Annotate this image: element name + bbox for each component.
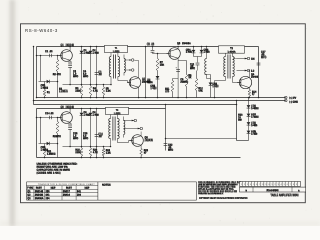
svg-text:47K: 47K <box>57 136 62 139</box>
label C19 <box>83 132 89 140</box>
svg-text:1: 1 <box>241 184 242 186</box>
chart outer box <box>27 182 197 200</box>
label Q6 <box>145 136 154 142</box>
diode D2 <box>89 46 93 86</box>
label Q4 <box>251 73 259 79</box>
label C22 <box>168 144 174 152</box>
svg-text:254: 254 <box>46 197 51 200</box>
diode CR8 <box>247 122 251 131</box>
svg-text:3: 3 <box>278 184 279 186</box>
svg-text:1: 1 <box>272 184 273 186</box>
svg-text:20MFD: 20MFD <box>180 81 188 84</box>
svg-text:47K: 47K <box>57 74 62 77</box>
transformer T3 tertiary <box>124 117 125 138</box>
title block number row <box>240 187 306 192</box>
svg-text:.05: .05 <box>49 51 53 54</box>
wire Q4 emitter <box>248 88 250 90</box>
label R4 <box>93 87 98 93</box>
wire T1 to Q2 base <box>121 81 130 83</box>
svg-text:1-480: 1-480 <box>93 52 100 55</box>
svg-text:1.5K: 1.5K <box>106 152 111 155</box>
svg-text:MFD: MFD <box>73 75 78 78</box>
title block letter B <box>245 190 247 193</box>
label D8 <box>84 111 91 117</box>
label Q5 <box>61 106 75 110</box>
transformer T3 primary <box>109 115 112 148</box>
resistor R7 <box>156 54 159 71</box>
label R5 <box>106 87 111 93</box>
resistor R9 <box>185 61 188 99</box>
capacitor C17 <box>257 63 261 65</box>
resistor R21 <box>40 117 46 159</box>
svg-text:1-480: 1-480 <box>212 85 219 88</box>
svg-text:GN: GN <box>251 58 255 61</box>
transformer T3 secondary <box>117 115 120 143</box>
svg-text:5: 5 <box>253 184 254 186</box>
resistor R12 <box>195 71 198 98</box>
svg-text:1-480: 1-480 <box>150 87 157 90</box>
title block letter A <box>298 189 300 193</box>
label D9 <box>93 111 100 117</box>
svg-text:1-4054: 1-4054 <box>113 50 120 53</box>
svg-text:8: 8 <box>293 184 294 186</box>
svg-text:6: 6 <box>256 184 257 186</box>
svg-text:2N406: 2N406 <box>251 76 259 79</box>
wire emitter rail <box>63 84 112 86</box>
capacitor C9 electrolytic <box>176 67 189 84</box>
wire top bus channel 2 <box>37 108 166 110</box>
svg-text:4: 4 <box>281 184 282 186</box>
label CR9 <box>251 130 258 136</box>
chart notes area label <box>102 184 111 188</box>
label R11 <box>165 87 170 93</box>
capacitor C5 <box>151 46 169 55</box>
capacitor C14 <box>45 112 54 119</box>
svg-text:NOTES: NOTES <box>102 184 111 187</box>
wire channel 1 right edge / C17 branch <box>258 47 260 98</box>
diode chain column <box>248 97 250 105</box>
label CR7 <box>251 113 259 119</box>
svg-text:1-404A: 1-404A <box>227 51 235 54</box>
svg-text:0: 0 <box>268 184 269 186</box>
wire T1 tap lead 2 <box>124 69 132 71</box>
svg-text:MFD: MFD <box>190 67 195 70</box>
svg-text:MFD: MFD <box>83 75 88 78</box>
resistor R25 <box>140 149 143 159</box>
svg-text:1-4803: 1-4803 <box>251 107 259 110</box>
svg-text:MFD: MFD <box>261 56 267 59</box>
node T1 tap terminal 2 <box>131 69 134 72</box>
chart row rules <box>27 189 98 196</box>
wire separator x96 <box>96 46 98 99</box>
wire top bus channel 1 <box>37 46 259 48</box>
drawing number RS-8-W640-3 <box>25 28 58 33</box>
label R22 <box>53 135 62 139</box>
svg-text:47K: 47K <box>198 90 203 93</box>
svg-text:TRANSISTOR & DIODE COMPATIBLE: TRANSISTOR & DIODE COMPATIBLE CHART <box>38 183 96 186</box>
wire Q1 emitter <box>69 60 71 62</box>
transformer T2 primary <box>214 53 226 98</box>
svg-text:1500: 1500 <box>147 82 153 85</box>
svg-text:10K: 10K <box>160 64 165 67</box>
bottom scan shade <box>0 221 320 226</box>
svg-text:220: 220 <box>165 90 170 93</box>
wire speaker lead 1 <box>234 57 248 60</box>
wire separator x145 <box>145 46 147 99</box>
label Q3 <box>177 42 191 46</box>
wire Q3 emitter column <box>177 61 179 99</box>
title block revision strip <box>240 182 301 187</box>
wire power bottom connector <box>237 140 249 142</box>
svg-text:1-480: 1-480 <box>251 133 258 136</box>
label R23 <box>75 149 81 155</box>
disclaimer text <box>198 181 242 196</box>
notes block <box>37 163 78 176</box>
transistor Q6 <box>130 135 144 147</box>
transformer T1 label box <box>105 45 128 53</box>
label CR5 <box>41 146 49 152</box>
label D2 <box>93 49 100 55</box>
wire Q5 collector to bus <box>69 108 71 113</box>
svg-text:5: 5 <box>284 184 285 186</box>
chart title rule <box>27 185 98 187</box>
wire ground bus <box>34 100 286 102</box>
svg-text:9: 9 <box>265 184 266 186</box>
svg-text:2N2430: 2N2430 <box>145 139 154 142</box>
svg-text:MFD: MFD <box>168 149 174 152</box>
diode D6 <box>200 46 204 57</box>
wire Q1 collector to bus <box>69 46 71 51</box>
resistor R2 <box>56 55 59 98</box>
diode CR5 <box>39 142 58 146</box>
label speaker 2 <box>251 70 255 74</box>
title block title text <box>270 194 299 198</box>
label D1 <box>84 49 91 55</box>
label R24 <box>93 149 98 155</box>
wire emitter rail lower <box>63 146 111 148</box>
wire channel 2 output column <box>165 104 167 151</box>
wire T1 tap lead 1 <box>124 59 132 61</box>
transformer T3 label box <box>106 107 129 115</box>
label C17 <box>261 51 267 60</box>
diode D1 <box>80 46 84 86</box>
label C18 <box>73 132 79 140</box>
svg-text:9: 9 <box>296 184 297 186</box>
svg-text:1.5K: 1.5K <box>106 90 111 93</box>
svg-text:3: 3 <box>247 184 248 186</box>
wire Q2 emitter <box>138 87 140 98</box>
svg-text:TREATED ACCORDINGLY.: TREATED ACCORDINGLY. <box>198 193 224 196</box>
wire Q3 emitter <box>178 58 186 60</box>
wire Q5 input <box>36 117 61 119</box>
label CR3 <box>147 79 157 91</box>
svg-text:COPYRIGHT 1964 BY DELTA ELEC: COPYRIGHT 1964 BY DELTA ELECTRONICS CORP… <box>199 197 248 200</box>
diode D9 <box>89 108 93 148</box>
svg-text:8: 8 <box>262 184 263 186</box>
svg-text:1-480: 1-480 <box>204 51 211 54</box>
svg-text:1.5MEG: 1.5MEG <box>47 153 56 156</box>
chart title <box>38 183 96 186</box>
resistor R26 <box>102 146 105 159</box>
capacitor C3 <box>95 71 103 77</box>
svg-text:(CODES ARE 1-4XX): (CODES ARE 1-4XX) <box>37 172 61 175</box>
svg-text:4.7K: 4.7K <box>93 90 98 93</box>
resistor R4 <box>89 85 92 99</box>
svg-text:1-480: 1-480 <box>251 124 258 127</box>
title block drawing number <box>267 189 280 193</box>
transistor Q1 <box>59 50 73 62</box>
capacitor C15 <box>68 124 72 147</box>
resistor R1 <box>40 55 46 99</box>
wire channel 2 bottom bus <box>37 157 241 159</box>
svg-text:1-480: 1-480 <box>84 114 91 117</box>
label C4 <box>83 70 89 78</box>
svg-text:2: 2 <box>244 184 245 186</box>
wire T2 to Q4 base <box>237 82 241 84</box>
copyright line <box>199 196 248 200</box>
title block strip dividers <box>243 182 298 187</box>
svg-text:2.2MEG: 2.2MEG <box>59 90 68 93</box>
transistor Q3 <box>167 48 181 60</box>
transistor Q4 <box>237 76 252 88</box>
wire output lead 1 <box>124 120 135 122</box>
capacitor C11 <box>196 63 200 70</box>
wire Q2 collector <box>135 61 139 78</box>
svg-text:.05: .05 <box>151 43 155 46</box>
wire channel 2 left edge <box>36 109 38 158</box>
svg-text:TABLE AMPLIFIER W640: TABLE AMPLIFIER W640 <box>270 194 299 197</box>
wire T3 to Q6 base <box>121 141 133 143</box>
label CR1 <box>41 84 68 93</box>
label speaker 1 <box>251 58 255 62</box>
wire Q3 collector <box>177 46 179 49</box>
wire feedback loop lower <box>165 138 237 140</box>
wire 9V bus <box>37 97 286 99</box>
svg-text:MFD: MFD <box>83 137 88 140</box>
transformer T1 primary <box>109 53 112 86</box>
diode CR1 <box>39 80 58 84</box>
svg-text:1-4803: 1-4803 <box>41 87 49 90</box>
label R20 bias <box>238 114 243 122</box>
svg-text:MFD: MFD <box>73 137 78 140</box>
svg-text:1-480: 1-480 <box>93 114 100 117</box>
label R9 <box>188 74 192 80</box>
transformer T1 core <box>113 55 115 79</box>
diode D5 <box>192 46 196 57</box>
svg-text:.05: .05 <box>50 113 54 116</box>
svg-text:RS-8-W640-3: RS-8-W640-3 <box>25 28 58 33</box>
diode CR7 <box>247 113 251 122</box>
label R1 <box>47 91 51 95</box>
label Q1 <box>61 44 75 48</box>
svg-text:220K: 220K <box>75 90 81 93</box>
diode CR6 <box>247 105 251 114</box>
left scan shadow band <box>8 0 17 226</box>
svg-text:254: 254 <box>77 194 82 197</box>
transformer T3 core <box>113 117 115 141</box>
drawing border frame <box>21 24 306 203</box>
wire speaker lead 2 <box>237 70 248 72</box>
wire Q1 input <box>36 55 61 57</box>
label D6 <box>204 48 211 54</box>
wire power left column <box>236 100 238 141</box>
transformer T2 secondary <box>233 53 237 82</box>
svg-text:RS-8-W640: RS-8-W640 <box>267 189 280 192</box>
capacitor C16 <box>95 133 104 139</box>
transformer T1 secondary <box>118 53 121 81</box>
wire Q5 emitter <box>69 122 71 124</box>
node speaker terminal 2 <box>247 69 250 72</box>
wire output lead 2 <box>124 128 141 130</box>
resistor R14 <box>248 90 251 99</box>
label R25 <box>144 149 149 155</box>
transformer T2 core <box>228 55 230 79</box>
drawing area fill <box>21 24 306 203</box>
resistor R3 <box>80 85 83 99</box>
transformer T2 label box <box>219 46 245 54</box>
resistor R5 <box>102 84 105 99</box>
transistor Q2 <box>127 77 141 89</box>
resistor R11 <box>171 79 178 98</box>
chart column dividers <box>34 186 76 200</box>
transistor Q5 <box>59 112 73 124</box>
node T1 tap terminal 1 <box>131 59 134 62</box>
label C11 <box>190 63 196 71</box>
wire Q6 emitter <box>140 145 142 148</box>
wire channel 2 feed line <box>34 104 237 106</box>
chart subheader <box>27 187 90 191</box>
label CR8 <box>251 122 258 128</box>
node feed junction <box>33 46 38 102</box>
node speaker terminal 1 <box>247 57 250 60</box>
diode CR3 <box>156 71 160 99</box>
label R26 <box>106 149 111 155</box>
resistor R23 <box>80 147 83 159</box>
svg-text:1-480: 1-480 <box>84 52 91 55</box>
svg-text:2N414: 2N414 <box>63 194 71 197</box>
node output terminal 1 <box>134 119 137 122</box>
node output terminal 2 <box>140 127 143 130</box>
label R2 <box>53 73 62 77</box>
capacitor C22 <box>164 144 168 146</box>
capacitor C2 <box>68 62 72 85</box>
label R12 <box>198 87 203 93</box>
svg-text:1K: 1K <box>188 77 191 80</box>
svg-text:1-4803: 1-4803 <box>41 149 49 152</box>
svg-text:(-) GND: (-) GND <box>289 101 298 104</box>
label C3 <box>73 70 79 78</box>
svg-text:1-4803: 1-4803 <box>251 116 259 119</box>
svg-text:4.7K: 4.7K <box>93 152 98 155</box>
svg-text:4: 4 <box>250 184 251 186</box>
diode CR2 <box>205 75 213 98</box>
wire channel 1 left edge <box>36 47 38 98</box>
diode D8 <box>80 108 84 148</box>
wire Q6 collector <box>140 132 142 136</box>
label R7 <box>160 61 165 67</box>
node 9V terminal <box>258 96 287 99</box>
svg-text:7: 7 <box>259 184 260 186</box>
node GND terminal <box>285 99 288 102</box>
wire separator x96 lower <box>96 108 98 159</box>
label C5 <box>147 43 155 47</box>
svg-text:6: 6 <box>287 184 288 186</box>
diode CR9 <box>247 130 251 141</box>
label CR2 <box>212 83 219 89</box>
label R3 <box>75 87 81 93</box>
wire outer left column <box>33 47 35 105</box>
title block strip numbers <box>241 184 297 186</box>
resistor R22 <box>56 117 59 158</box>
svg-text:2: 2 <box>275 184 276 186</box>
svg-text:7: 7 <box>290 184 291 186</box>
svg-text:1-480: 1-480 <box>186 51 193 54</box>
svg-text:2N406A: 2N406A <box>182 43 191 46</box>
label D5 <box>186 48 193 54</box>
choke L1 winding <box>205 46 211 79</box>
resistor R24 <box>89 147 92 159</box>
svg-text:220K: 220K <box>75 152 81 155</box>
label CR6 <box>251 105 259 111</box>
label R21 <box>47 150 56 156</box>
chart cell entries <box>27 190 81 200</box>
svg-text:2N406A: 2N406A <box>35 197 44 200</box>
label GND <box>289 100 298 104</box>
wire Q4 collector <box>248 71 251 78</box>
label R14 <box>252 91 257 97</box>
transformer T1 tertiary <box>124 55 125 76</box>
label Q2 <box>142 78 151 84</box>
wire diode row 2 <box>194 57 202 63</box>
capacitor C1 <box>45 50 53 57</box>
label 9V <box>289 97 296 101</box>
